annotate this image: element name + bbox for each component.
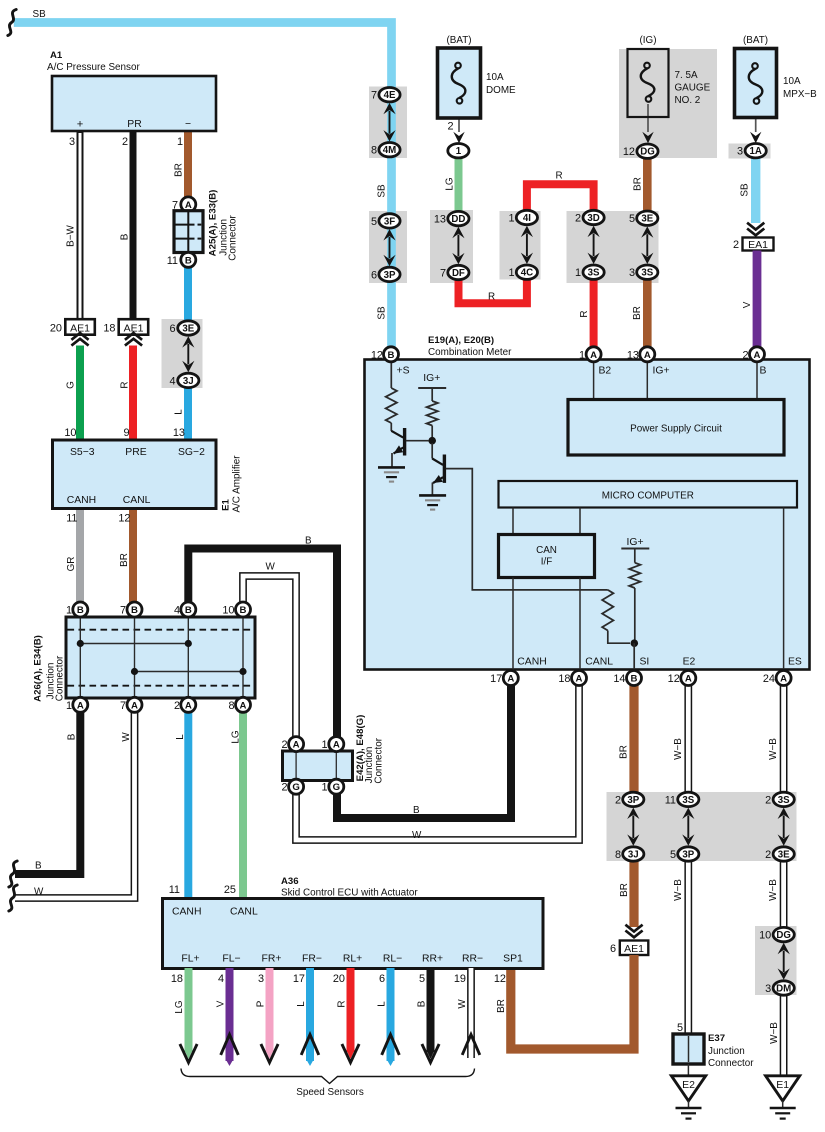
svg-text:7. 5A: 7. 5A [675, 70, 698, 81]
arrow pair 3S/3E [778, 808, 790, 819]
svg-text:3: 3 [629, 267, 635, 279]
svg-text:3E: 3E [182, 323, 194, 334]
connector oval 3S right [637, 265, 658, 279]
svg-text:R: R [556, 171, 563, 182]
node SI [631, 639, 639, 647]
rail IG+ 2 [621, 548, 649, 550]
svg-text:B: B [77, 605, 84, 616]
svg-text:MPX−B: MPX−B [783, 89, 817, 100]
svg-text:W−B: W−B [673, 738, 684, 760]
svg-text:B: B [185, 255, 192, 266]
wire MC to CANIF 2 [579, 508, 581, 536]
wire B CAN bus upper [188, 549, 337, 741]
svg-text:4: 4 [218, 973, 224, 985]
wire LG fuse to DD [455, 158, 463, 214]
svg-text:3S: 3S [641, 268, 653, 279]
wire SB main [14, 23, 392, 351]
connector oval 4E [379, 88, 400, 102]
component E1 A/C Amplifier [53, 440, 217, 509]
svg-text:CANL: CANL [123, 495, 151, 506]
CAN I/F box [499, 535, 595, 578]
wire W RR- [467, 968, 475, 1058]
svg-text:P: P [255, 1000, 266, 1007]
svg-text:8: 8 [615, 849, 621, 861]
connector oval 4M [379, 143, 400, 157]
svg-text:B: B [240, 605, 247, 616]
svg-text:G: G [333, 782, 340, 793]
svg-text:SB: SB [33, 9, 47, 20]
svg-text:IG+: IG+ [423, 373, 440, 384]
svg-text:DM: DM [776, 983, 791, 994]
wire break SB [8, 10, 16, 36]
resistor CANL-SI [602, 590, 613, 631]
wire W-B ES upper [780, 684, 788, 796]
svg-text:CANH: CANH [172, 907, 201, 918]
svg-text:3F: 3F [384, 216, 395, 227]
svg-text:Combination Meter: Combination Meter [428, 347, 512, 358]
connector oval 3E left [178, 321, 199, 335]
wire BR SI lower [629, 858, 638, 927]
wire B A26 to break [15, 712, 80, 874]
connector box AE1 SI [620, 941, 649, 956]
junction connector E42 box [283, 751, 353, 781]
svg-text:20: 20 [50, 323, 62, 335]
svg-text:FL−: FL− [222, 954, 240, 965]
svg-text:7: 7 [120, 605, 126, 617]
svg-text:E2: E2 [683, 657, 696, 668]
arrow pair 3D/3S [588, 226, 600, 237]
svg-text:A: A [644, 350, 651, 361]
svg-text:BR: BR [496, 999, 507, 1013]
junction A26 pin 8A [236, 697, 251, 712]
svg-text:3E: 3E [778, 849, 790, 860]
wire B RR+ [427, 968, 435, 1052]
svg-text:E1: E1 [221, 498, 232, 510]
fuse DOME symbol [455, 63, 461, 69]
svg-text:RR+: RR+ [422, 954, 443, 965]
svg-text:A: A [240, 700, 247, 711]
svg-text:5: 5 [419, 973, 425, 985]
svg-text:G: G [66, 381, 77, 389]
svg-text:GR: GR [66, 557, 77, 572]
svg-text:5: 5 [677, 1022, 683, 1034]
svg-text:W: W [457, 999, 468, 1009]
svg-text:DG: DG [776, 930, 791, 941]
svg-text:2: 2 [575, 213, 581, 225]
svg-text:PR: PR [127, 119, 142, 130]
svg-text:L: L [376, 1001, 387, 1007]
wire fuse MPX lead [755, 104, 757, 132]
wire R DF loop [459, 271, 527, 303]
svg-text:LG: LG [230, 730, 241, 743]
junction A26 pin 4B [181, 602, 196, 617]
wire SI to pin [633, 643, 635, 671]
wire BR SP1 [511, 955, 634, 1049]
svg-text:12: 12 [118, 513, 130, 525]
resistor +S [386, 388, 397, 423]
connector oval 3E top [637, 211, 658, 225]
wire node to Q2 [431, 443, 433, 459]
wire R RL+ [347, 968, 355, 1052]
svg-text:B: B [131, 605, 138, 616]
ground Q2 [419, 494, 446, 497]
wire W CAN bus upper [243, 576, 296, 740]
svg-text:A: A [293, 740, 300, 751]
connector oval 3E b [773, 847, 794, 861]
wire res to SI node [608, 631, 630, 644]
svg-text:11: 11 [66, 513, 77, 525]
svg-text:Connector: Connector [373, 737, 384, 783]
svg-text:7: 7 [440, 268, 446, 280]
svg-text:B: B [416, 1000, 427, 1007]
wire R top loop [527, 184, 594, 216]
svg-text:3J: 3J [183, 376, 194, 387]
connector panel DD/DF [430, 210, 473, 283]
svg-text:3P: 3P [682, 849, 694, 860]
svg-text:B: B [185, 605, 192, 616]
svg-text:1: 1 [321, 739, 327, 751]
wire IG+2 top [634, 549, 636, 563]
wire L FR- [306, 968, 314, 1061]
junction A26 pin 7B [127, 602, 142, 617]
wire Q2 base [446, 469, 608, 590]
arrow pair 3E/3J [182, 336, 194, 347]
svg-text:SB: SB [377, 306, 388, 320]
svg-text:12: 12 [623, 146, 635, 158]
svg-text:MICRO COMPUTER: MICRO COMPUTER [602, 491, 694, 502]
wire BR sensor - [184, 130, 192, 199]
svg-text:25: 25 [224, 884, 236, 896]
svg-text:−: − [185, 119, 191, 130]
A26 col line 1 [79, 618, 81, 697]
svg-text:CAN: CAN [536, 545, 557, 556]
svg-text:11: 11 [167, 255, 178, 267]
svg-text:B: B [305, 536, 312, 547]
svg-text:1: 1 [177, 136, 183, 148]
svg-text:Skid Control ECU with Actuator: Skid Control ECU with Actuator [281, 888, 418, 899]
svg-text:I/F: I/F [541, 557, 553, 568]
connector oval 4C [516, 265, 537, 279]
svg-text:RR−: RR− [462, 954, 483, 965]
A26 dashed bottom [68, 685, 254, 687]
svg-text:3S: 3S [588, 268, 600, 279]
svg-text:24: 24 [763, 673, 775, 685]
svg-text:SG−2: SG−2 [178, 447, 205, 458]
component A36 Skid Control ECU [163, 899, 544, 969]
svg-text:RL+: RL+ [343, 954, 362, 965]
resistor IG+ 1 [427, 401, 438, 426]
wire W-B ES lower [780, 991, 788, 1076]
junction connector A25 box [174, 211, 203, 253]
svg-text:3D: 3D [587, 213, 599, 224]
meter pin 2A [750, 347, 765, 362]
svg-text:6: 6 [371, 269, 377, 281]
svg-text:BR: BR [633, 177, 644, 191]
svg-text:10: 10 [222, 605, 234, 617]
svg-text:5: 5 [670, 849, 676, 861]
svg-text:+S: +S [397, 366, 410, 377]
arrow pair 3E/3S [641, 226, 653, 237]
wire L 3J to E1 [184, 378, 192, 441]
wire W E42 to meter CANL [296, 682, 579, 840]
svg-text:20: 20 [333, 973, 345, 985]
ground Q1 [378, 466, 405, 469]
wire W-B ES mid [780, 858, 788, 931]
connector box EA1 [743, 238, 774, 251]
svg-text:R: R [336, 1000, 347, 1007]
svg-text:1A: 1A [750, 146, 762, 157]
svg-text:4M: 4M [383, 145, 396, 156]
svg-text:13: 13 [627, 349, 639, 361]
svg-text:B−W: B−W [66, 224, 77, 246]
svg-text:Connector: Connector [55, 655, 66, 701]
svg-text:7: 7 [120, 700, 126, 712]
connector oval 4I [516, 210, 537, 224]
resistor IG+ 2 [629, 563, 640, 588]
svg-text:8: 8 [371, 145, 377, 157]
riser B [756, 360, 758, 400]
svg-text:4I: 4I [523, 213, 531, 224]
connector oval 3J b [623, 847, 644, 861]
svg-text:6: 6 [610, 943, 616, 955]
svg-text:A26(A), E34(B): A26(A), E34(B) [32, 635, 43, 702]
svg-text:3J: 3J [628, 849, 639, 860]
connector panel 3D/3S/3E/3S [567, 211, 659, 283]
junction A26 pin 7A [127, 697, 142, 712]
connector oval 3S b1 [678, 792, 699, 806]
svg-text:12: 12 [494, 973, 506, 985]
svg-text:L: L [296, 1001, 307, 1007]
wire W-B E2 lower [684, 858, 692, 1034]
wire L A26 to skid [184, 712, 192, 899]
svg-text:IG+: IG+ [653, 366, 670, 377]
wire B-W sensor + [77, 130, 84, 320]
svg-text:2: 2 [281, 782, 287, 794]
arrow pair DG/DM [778, 943, 790, 954]
svg-text:A: A [507, 674, 514, 685]
svg-text:A1: A1 [50, 50, 63, 61]
svg-text:L: L [175, 734, 186, 740]
svg-text:14: 14 [613, 673, 625, 685]
svg-text:G: G [292, 782, 299, 793]
svg-text:R: R [488, 292, 495, 303]
meter pin 13A [640, 347, 655, 362]
connector panel 1A [729, 144, 771, 159]
connector panel DG/DM [755, 926, 797, 995]
svg-text:2: 2 [174, 700, 180, 712]
A26 col line 2 [134, 618, 136, 697]
svg-text:4E: 4E [384, 90, 396, 101]
riser ES [783, 508, 785, 670]
wire BR DG to 3E [643, 152, 652, 216]
svg-text:2: 2 [742, 349, 748, 361]
svg-text:NO. 2: NO. 2 [675, 95, 701, 106]
wire LG FL+ [185, 968, 193, 1052]
wire IG+2 bottom [634, 588, 636, 643]
micro computer box [499, 481, 798, 508]
svg-text:A: A [685, 674, 692, 685]
svg-text:E37: E37 [708, 1033, 725, 1044]
fuse panel GAUGE [619, 49, 717, 158]
svg-text:2: 2 [765, 849, 771, 861]
svg-text:3: 3 [258, 973, 264, 985]
wire BR 3S to meter [643, 269, 652, 349]
wire MC to CANIF 1 [512, 508, 514, 536]
junction A26 pin 2A [181, 697, 196, 712]
wire BR E1 to A26 [129, 508, 137, 606]
svg-text:+: + [77, 119, 84, 131]
svg-text:1: 1 [579, 349, 585, 361]
wire W-B E2 upper [684, 684, 692, 796]
connector mark EA1 [747, 223, 764, 230]
junction A26 pin 1A [73, 697, 88, 712]
arrow pair 3F/3P [383, 229, 395, 240]
svg-text:A: A [780, 674, 787, 685]
svg-text:1: 1 [508, 267, 514, 279]
svg-text:CANL: CANL [585, 657, 613, 668]
svg-text:BR: BR [632, 306, 643, 320]
svg-text:2: 2 [281, 739, 287, 751]
wire G AE1 to E1 [76, 346, 84, 442]
svg-text:17: 17 [490, 673, 502, 685]
svg-text:3: 3 [765, 983, 771, 995]
svg-text:3P: 3P [384, 270, 396, 281]
svg-text:W−B: W−B [768, 879, 779, 901]
svg-text:3E: 3E [641, 214, 653, 225]
svg-text:BR: BR [173, 163, 184, 177]
svg-text:6: 6 [169, 323, 175, 335]
wire LG A26 to skid [239, 712, 247, 899]
meter pin 14B [627, 671, 642, 686]
E42 pin 2A [289, 737, 304, 752]
svg-text:17: 17 [293, 973, 305, 985]
svg-text:Speed Sensors: Speed Sensors [296, 1087, 364, 1098]
fuse MPX box [735, 49, 777, 118]
wire E37 to E2 gnd [687, 1064, 689, 1076]
transistor Q2 [443, 455, 446, 483]
connector box AE1 18 [119, 319, 149, 335]
wire CANIF to pin CANL [579, 578, 581, 672]
svg-text:2: 2 [765, 794, 771, 806]
E42 pin 1A [329, 737, 344, 752]
connector oval DG [637, 144, 658, 158]
wire L A25 to 3E [184, 266, 192, 330]
A26 dashed top [68, 629, 254, 631]
meter pin 12B [384, 347, 399, 362]
svg-text:1: 1 [575, 267, 581, 279]
svg-text:19: 19 [454, 973, 466, 985]
E42 pin 1G [329, 779, 344, 794]
svg-text:18: 18 [171, 973, 183, 985]
svg-text:SB: SB [377, 184, 388, 198]
connector oval 3P b2 [678, 847, 699, 861]
svg-text:(BAT): (BAT) [446, 35, 471, 46]
svg-text:A: A [131, 700, 138, 711]
rail IG+ 1 [418, 387, 446, 389]
wire P FR+ [266, 968, 274, 1052]
svg-text:W−B: W−B [769, 1022, 780, 1044]
svg-text:W: W [412, 830, 422, 841]
meter pin 24A [776, 671, 791, 686]
transistor Q1 [403, 428, 406, 456]
connector oval 1 [448, 144, 469, 158]
svg-text:SI: SI [640, 657, 650, 668]
svg-text:A/C Pressure Sensor: A/C Pressure Sensor [47, 62, 140, 73]
svg-text:A: A [77, 700, 84, 711]
svg-text:4C: 4C [521, 268, 533, 279]
junction connector A25 circle A [181, 197, 196, 212]
connector panel 4E/4M [369, 87, 407, 159]
component E19/E20 Combination Meter [365, 360, 810, 670]
svg-text:B: B [35, 861, 42, 872]
connector box AE1 20 [65, 319, 95, 335]
svg-text:A: A [185, 700, 192, 711]
wire V FL- [226, 968, 234, 1061]
connector oval 3P b [623, 792, 644, 806]
svg-text:Junction: Junction [708, 1046, 745, 1057]
svg-text:DD: DD [451, 214, 465, 225]
svg-text:1: 1 [66, 605, 72, 617]
svg-text:ES: ES [788, 657, 802, 668]
svg-text:2: 2 [733, 239, 739, 251]
svg-text:S5−3: S5−3 [70, 447, 95, 458]
connector oval DF [448, 265, 469, 279]
svg-text:2: 2 [122, 136, 128, 148]
wire B E42 to meter CANH [337, 682, 511, 818]
wire fuse GAUGE lead [647, 104, 649, 132]
svg-text:B: B [631, 674, 638, 685]
connector panel 4I/4C [500, 211, 541, 280]
junction connector A25 circle B [181, 252, 196, 267]
svg-text:W−B: W−B [768, 738, 779, 760]
svg-text:1: 1 [66, 700, 72, 712]
junction connector A26 box [66, 617, 255, 698]
wire V EA1 to meter [753, 251, 762, 349]
svg-text:A: A [576, 674, 583, 685]
svg-text:9: 9 [123, 427, 129, 439]
connector oval 3J [178, 373, 199, 387]
wire GR E1 to A26 [76, 508, 84, 606]
svg-text:4: 4 [174, 605, 180, 617]
svg-text:12: 12 [668, 673, 680, 685]
svg-text:18: 18 [558, 673, 570, 685]
wire res to node [431, 426, 433, 439]
svg-text:10: 10 [64, 427, 76, 439]
svg-text:Connector: Connector [708, 1058, 754, 1069]
arrow pair DD/DF [452, 227, 464, 238]
wire break W [9, 885, 17, 911]
svg-text:4: 4 [169, 375, 175, 387]
connector panel 3P/3J 3S/3P 3S/3E [607, 792, 797, 861]
ground point E1 [766, 1076, 800, 1101]
svg-text:R: R [579, 310, 590, 317]
riser B2 [593, 360, 595, 400]
wire +S [390, 360, 392, 388]
svg-text:13: 13 [173, 427, 185, 439]
wire fuse DOME lead [458, 104, 460, 132]
svg-text:3: 3 [737, 146, 743, 158]
svg-text:18: 18 [103, 323, 115, 335]
svg-text:E2: E2 [682, 1079, 695, 1091]
svg-text:B: B [413, 805, 420, 816]
arrow fuse DOME [453, 132, 464, 144]
connector oval 3D [583, 210, 604, 224]
svg-text:11: 11 [169, 884, 180, 896]
svg-text:FR+: FR+ [262, 954, 282, 965]
svg-text:2: 2 [615, 794, 621, 806]
connector oval 3P [379, 267, 400, 281]
connector oval DG b [773, 927, 794, 941]
